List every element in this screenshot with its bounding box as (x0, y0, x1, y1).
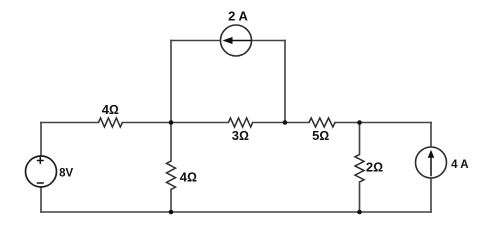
svg-text:4Ω: 4Ω (102, 102, 119, 117)
wire middle bus right segment (335, 122, 431, 124)
bottom junction dot right (357, 210, 362, 215)
svg-text:8V: 8V (59, 167, 73, 179)
voltage source V1 8V (26, 156, 57, 187)
wire node A vertical lower (170, 190, 172, 213)
svg-text:4Ω: 4Ω (180, 170, 197, 185)
node C junction dot (357, 120, 362, 125)
node B junction dot (283, 120, 288, 125)
current source I1 2A (221, 25, 252, 56)
bottom junction dot left (169, 210, 174, 215)
wire right rail upper (430, 123, 432, 148)
wire left rail upper (40, 123, 42, 157)
wire node A vertical upper (170, 123, 172, 162)
wire top loop left leg (170, 41, 172, 123)
wire middle bus segment between R4 and node A (122, 122, 228, 124)
wire right rail lower (430, 178, 432, 212)
wire top loop right leg (284, 41, 286, 123)
node A junction dot (169, 120, 174, 125)
svg-text:2Ω: 2Ω (366, 159, 383, 174)
wire middle bus segment between R3 and R5 (253, 122, 309, 124)
wire 2ohm branch lower (359, 182, 361, 212)
svg-text:3Ω: 3Ω (232, 128, 249, 143)
wire bottom bus (41, 211, 431, 213)
current source I2 4A (416, 147, 447, 178)
wire top loop horizontal (171, 40, 285, 42)
resistor 5ohm (309, 118, 335, 127)
wire middle bus left segment (41, 122, 99, 124)
svg-text:2 A: 2 A (228, 9, 248, 24)
resistor 4ohm horizontal (99, 118, 123, 127)
svg-text:4 A: 4 A (451, 159, 468, 171)
resistor 3ohm (228, 118, 252, 127)
wire left rail lower (40, 187, 42, 212)
svg-text:5Ω: 5Ω (312, 128, 329, 143)
resistor 2ohm vertical (355, 155, 364, 183)
resistor 4ohm vertical (167, 161, 176, 190)
wire 2ohm branch upper (359, 123, 361, 155)
